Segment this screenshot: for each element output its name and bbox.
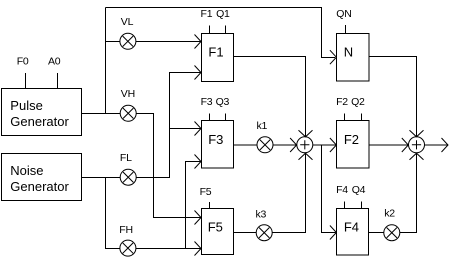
wire trunk noise branch down to FH xyxy=(106,178,120,249)
block F1 xyxy=(202,34,234,82)
multiplier FH xyxy=(120,240,136,256)
wire noise generator output xyxy=(82,177,121,179)
arrowhead into adder 2 top xyxy=(410,130,424,137)
block F3 xyxy=(202,121,234,169)
wire top line from trunk to N branch xyxy=(106,8,336,58)
tick Q1 param xyxy=(225,26,227,34)
wire FH branch up to F3 lower input xyxy=(186,162,201,249)
arrowhead final output xyxy=(442,138,449,152)
arrowhead into adder 1 bottom xyxy=(299,153,313,160)
adder 1 xyxy=(297,137,313,153)
arrowhead into F3 lower xyxy=(195,155,202,169)
svg-text:F1: F1 xyxy=(201,8,213,20)
svg-text:Generator: Generator xyxy=(10,114,69,129)
tick F3 param xyxy=(209,114,211,121)
arrowhead into F5 lower xyxy=(195,242,202,256)
wire k2 output up to adder 2 bottom xyxy=(400,154,417,233)
wire F4 output to k2 xyxy=(369,232,384,234)
wire k1 output to adder 1 left xyxy=(273,144,296,146)
svg-text:F3: F3 xyxy=(208,132,223,147)
tick Q2 param xyxy=(361,114,363,121)
wire VH output down to F5 upper input xyxy=(136,114,200,218)
block F5 xyxy=(202,209,234,255)
arrowhead into adder 1 top xyxy=(299,130,313,137)
svg-text:VL: VL xyxy=(121,16,134,28)
tick F5 param xyxy=(209,202,211,209)
svg-text:F1: F1 xyxy=(208,45,223,60)
svg-text:Pulse: Pulse xyxy=(10,98,43,113)
tick Q3 param xyxy=(225,114,227,121)
block Noise Generator xyxy=(2,154,82,201)
tick F1 param xyxy=(209,26,211,34)
wire adder 2 output xyxy=(425,144,448,146)
svg-text:Q1: Q1 xyxy=(216,8,230,20)
svg-text:VH: VH xyxy=(121,88,135,100)
svg-text:N: N xyxy=(344,45,353,60)
svg-text:Q3: Q3 xyxy=(216,96,230,108)
multiplier VL xyxy=(120,33,136,49)
arrowhead into F1 lower xyxy=(195,66,202,80)
wire VL feed xyxy=(106,41,121,43)
arrowhead into adder 1 left xyxy=(290,138,297,152)
multiplier VH xyxy=(120,105,136,121)
svg-text:F2: F2 xyxy=(344,132,359,147)
tick Q4 param xyxy=(361,202,363,209)
svg-text:k1: k1 xyxy=(257,120,268,132)
svg-text:F4: F4 xyxy=(344,220,359,235)
wire FH output to F5 lower input xyxy=(136,248,200,250)
wire pulse generator output xyxy=(82,113,121,115)
wire adder 1 output to F2 input xyxy=(313,144,336,146)
svg-text:k3: k3 xyxy=(256,209,267,221)
multiplier k1 xyxy=(257,137,273,153)
tick F0 xyxy=(25,73,27,89)
block Pulse Generator xyxy=(2,89,82,136)
svg-text:QN: QN xyxy=(336,8,351,20)
wire branch to F3 upper input xyxy=(170,128,201,130)
multiplier k3 xyxy=(256,225,272,241)
arrowhead into adder 2 left xyxy=(402,138,409,152)
svg-text:FL: FL xyxy=(120,152,132,164)
wire branch down to F4 input xyxy=(322,145,336,233)
svg-text:A0: A0 xyxy=(48,56,61,68)
svg-text:F4: F4 xyxy=(336,184,348,196)
svg-text:Noise: Noise xyxy=(10,163,43,178)
tick F4 param xyxy=(344,202,346,209)
arrowhead into F5 upper xyxy=(195,211,202,225)
wire F3 output to k1 xyxy=(234,144,258,146)
wire F1 output down to adder 1 top xyxy=(234,57,306,137)
tick A0 xyxy=(57,73,59,89)
svg-text:Generator: Generator xyxy=(10,179,69,194)
block F2 xyxy=(337,121,370,169)
svg-text:F5: F5 xyxy=(200,186,212,198)
arrowhead into F3 upper xyxy=(195,122,202,136)
block F4 xyxy=(337,209,369,256)
wire k3 output up to adder 1 bottom xyxy=(272,154,305,233)
svg-text:Q2: Q2 xyxy=(351,96,365,108)
arrowhead into N xyxy=(330,50,337,64)
block N xyxy=(337,34,370,82)
svg-text:k2: k2 xyxy=(384,208,395,220)
svg-text:F3: F3 xyxy=(201,96,213,108)
multiplier k2 xyxy=(384,225,400,241)
wire trunk from top line to pulse output xyxy=(105,8,107,114)
arrowhead into F2 xyxy=(330,138,337,152)
svg-text:FH: FH xyxy=(119,224,133,236)
arrowhead into adder 2 bottom xyxy=(410,153,424,160)
wire FL output up to F1 lower input xyxy=(136,73,200,178)
wire F5 output to k3 xyxy=(234,232,257,234)
svg-text:F0: F0 xyxy=(17,56,29,68)
svg-text:Q4: Q4 xyxy=(352,184,366,196)
wire F2 output to adder 2 left xyxy=(369,144,408,146)
adder 2 xyxy=(409,137,425,153)
svg-text:F5: F5 xyxy=(208,220,223,235)
multiplier FL xyxy=(120,169,136,185)
tick QN param xyxy=(345,25,347,34)
arrowhead into F1 upper xyxy=(195,35,202,49)
svg-text:F2: F2 xyxy=(336,96,348,108)
wire N output down to adder 2 top xyxy=(369,57,417,137)
arrowhead into F4 xyxy=(330,226,337,240)
tick F2 param xyxy=(344,114,346,121)
wire VL output to F1 upper input xyxy=(136,41,200,43)
